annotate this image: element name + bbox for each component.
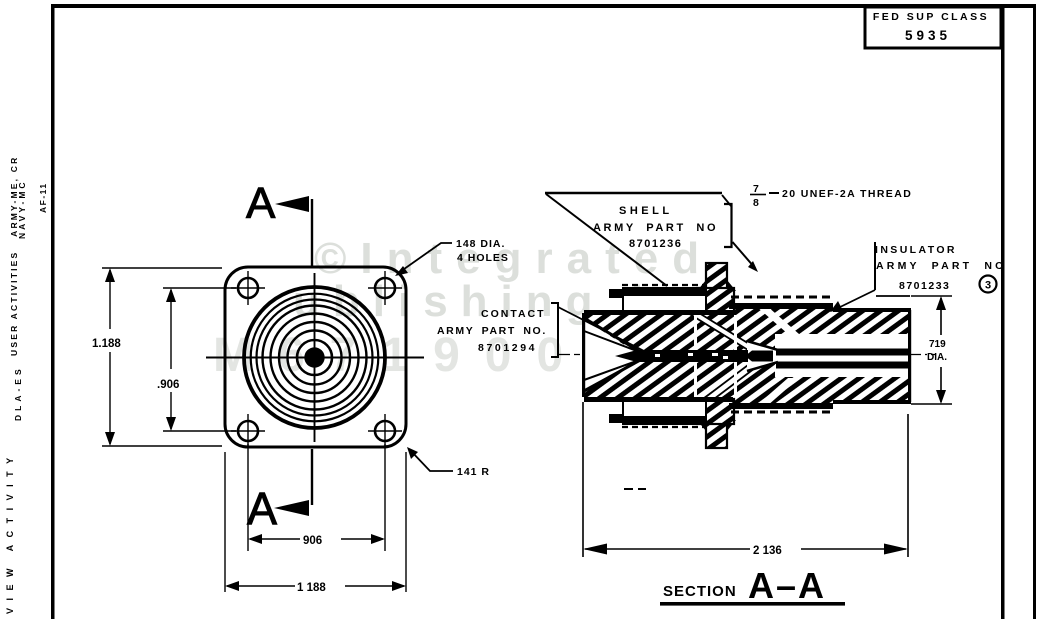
- svg-text:A–A: A–A: [748, 565, 826, 606]
- bottom edge thread: [729, 403, 833, 409]
- svg-text:2 136: 2 136: [753, 545, 782, 557]
- thread note text: [769, 192, 779, 194]
- svg-text:CONTACT: CONTACT: [481, 308, 546, 320]
- thread crest top: [731, 296, 833, 299]
- slot white: [775, 349, 908, 368]
- svg-text:8701294: 8701294: [478, 342, 537, 354]
- hex stem top: [697, 263, 736, 313]
- svg-text:906: 906: [303, 535, 322, 547]
- cone lower line: [584, 358, 644, 391]
- hole top-right: [368, 271, 402, 305]
- dim .906 left extension lines: [163, 288, 236, 431]
- svg-text:VIEW ACTIVITY: VIEW ACTIVITY: [5, 450, 15, 614]
- thread crest bottom: [731, 411, 833, 414]
- svg-text:7: 7: [753, 183, 759, 195]
- svg-text:AF-11: AF-11: [38, 182, 48, 213]
- border right inner: [1001, 4, 1005, 619]
- funnel chamfer top: [747, 341, 778, 350]
- dim 1.188 left dimension line: [109, 270, 111, 444]
- cone lower inner taper: [584, 359, 642, 380]
- concentric circle r44: [271, 314, 359, 402]
- circled 3: [980, 276, 997, 293]
- bore white top: [775, 334, 908, 349]
- dim 719 dimension line: [940, 298, 942, 402]
- cone cavity white: [585, 320, 642, 392]
- shell body hatch thread: [731, 305, 833, 407]
- svg-text:8701236: 8701236: [629, 238, 682, 250]
- shell body hatch left: [584, 312, 731, 400]
- leader 141 r: [411, 451, 453, 471]
- svg-text:ARMY PART NO: ARMY PART NO: [876, 260, 1007, 272]
- dim 2.136 dimension line: [585, 548, 906, 550]
- stray dashes: [624, 488, 646, 490]
- pin speckles: [655, 353, 728, 359]
- concentric circle r35: [279, 322, 350, 393]
- dim .906 left dimension line: [170, 290, 172, 429]
- bottom edge insulator: [833, 400, 911, 404]
- svg-text:A: A: [246, 179, 276, 228]
- concentric circle r58: [257, 300, 373, 416]
- svg-text:20 UNEF-2A THREAD: 20 UNEF-2A THREAD: [782, 188, 912, 200]
- insulator body hatch right: [833, 310, 908, 400]
- dim 1.188 bottom dimension line: [227, 585, 404, 587]
- svg-text:A: A: [247, 483, 277, 534]
- fed sup class box: [865, 7, 1001, 48]
- svg-text:SECTION: SECTION: [663, 583, 737, 600]
- center contact dot: [304, 347, 324, 367]
- concentric circle r17: [297, 340, 332, 375]
- shell leader horizontal: [545, 192, 722, 194]
- svg-text:1 188: 1 188: [297, 582, 326, 594]
- shell bracket: [724, 204, 732, 247]
- flange square body: [225, 267, 406, 447]
- contact bracket: [551, 303, 558, 357]
- top edge thread: [729, 303, 833, 309]
- dim 1.188 left extension lines: [102, 268, 222, 446]
- funnel white: [747, 342, 778, 370]
- hole bottom-left: [231, 414, 265, 448]
- border top: [52, 4, 1035, 8]
- svg-text:.906: .906: [157, 379, 179, 391]
- cutting arrow bottom: [274, 449, 312, 516]
- dim 1.188 bottom extension lines: [225, 452, 406, 592]
- svg-text:SHELL: SHELL: [619, 205, 673, 217]
- dim 719 arrows: [936, 296, 946, 310]
- vertical centerline: [314, 273, 316, 442]
- cone upper inner taper: [584, 331, 642, 353]
- svg-text:148 DIA.: 148 DIA.: [456, 238, 505, 250]
- funnel chamfer bottom: [747, 362, 778, 371]
- socket bar top: [776, 349, 909, 356]
- cutting arrow top: [275, 196, 312, 266]
- top edge left: [584, 310, 733, 315]
- cone upper line: [584, 318, 644, 354]
- leader 148 dia: [397, 243, 452, 274]
- svg-text:141 R: 141 R: [457, 466, 490, 478]
- white diagonal channel thread upper: [756, 306, 799, 334]
- hex flank gap right: [734, 315, 737, 397]
- right face: [908, 310, 911, 402]
- svg-text:NAVY-MC: NAVY-MC: [17, 179, 27, 239]
- shell bracket leader to hex: [733, 242, 756, 268]
- dim 1.188 bottom arrows: [225, 581, 239, 591]
- hex stem bottom: [697, 399, 736, 448]
- svg-text:719: 719: [929, 339, 946, 350]
- dim 719 extension lines: [911, 296, 952, 404]
- hex flank gap left: [694, 315, 697, 397]
- center pin: [615, 350, 773, 362]
- dim 906 bottom dimension line: [250, 538, 383, 540]
- concentric circle r27: [288, 331, 342, 385]
- svg-text:DLA-ES: DLA-ES: [13, 365, 23, 421]
- centerline right: [911, 354, 936, 356]
- horizontal centerline: [206, 357, 424, 359]
- left face: [582, 313, 585, 397]
- svg-text:INSULATOR: INSULATOR: [875, 244, 957, 256]
- border left: [51, 4, 55, 619]
- svg-text:FED SUP CLASS: FED SUP CLASS: [873, 11, 989, 23]
- concentric circle r70: [244, 287, 385, 428]
- svg-text:4 HOLES: 4 HOLES: [457, 252, 509, 264]
- bore white bottom: [775, 363, 908, 377]
- border right outer: [1033, 4, 1036, 619]
- svg-text:8: 8: [753, 197, 759, 209]
- hole bottom-right: [368, 414, 402, 448]
- white diagonal channel thread lower: [756, 378, 799, 406]
- clamp knurl dashes bottom: [622, 426, 704, 428]
- thread note fraction 7/8: [750, 183, 766, 209]
- concentric circle r64: [251, 294, 379, 422]
- dim 1.188 left arrows: [105, 268, 115, 282]
- svg-text:DIA.: DIA.: [927, 352, 947, 363]
- concentric circle r52: [263, 306, 367, 410]
- shell leader diagonal: [546, 194, 667, 286]
- svg-text:3: 3: [985, 280, 991, 292]
- svg-text:5935: 5935: [905, 28, 951, 43]
- clamp knurl dashes top: [622, 284, 704, 286]
- svg-text:8701233: 8701233: [899, 280, 950, 292]
- centerline left: [558, 354, 580, 356]
- dim 2.136 arrows: [583, 544, 607, 555]
- contact leader: [558, 307, 648, 353]
- dim 906 bottom extension lines: [248, 444, 385, 551]
- clamp ring upper: [609, 288, 706, 311]
- socket bar bottom: [776, 362, 909, 369]
- white diagonal channel upper: [688, 313, 759, 350]
- dim 2.136 extension lines: [583, 402, 908, 557]
- bottom edge left: [584, 397, 733, 402]
- svg-text:1.188: 1.188: [92, 338, 121, 350]
- hole top-left: [231, 271, 265, 305]
- top edge insulator: [833, 308, 911, 312]
- svg-text:ARMY PART NO.: ARMY PART NO.: [437, 325, 547, 337]
- insulator bracket: [874, 242, 876, 290]
- clamp ring lower: [609, 401, 706, 424]
- svg-text:ARMY PART NO: ARMY PART NO: [593, 222, 718, 234]
- dim 906 bottom arrows: [248, 534, 262, 544]
- white diagonal channel lower: [703, 362, 763, 399]
- dim .906 left arrows: [166, 288, 176, 302]
